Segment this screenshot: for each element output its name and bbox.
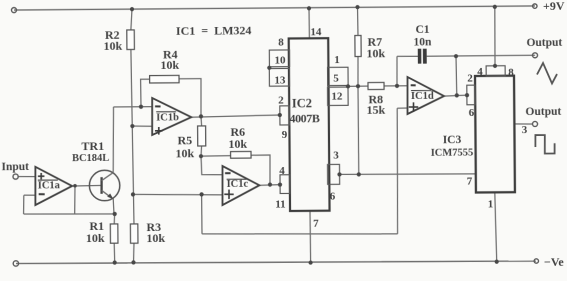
svg-text:10n: 10n xyxy=(413,36,432,48)
svg-text:10k: 10k xyxy=(366,46,385,60)
svg-text:2: 2 xyxy=(467,72,473,84)
svg-text:1: 1 xyxy=(334,54,340,66)
svg-text:5: 5 xyxy=(333,72,339,84)
svg-text:7: 7 xyxy=(467,175,473,187)
svg-text:14: 14 xyxy=(310,26,322,38)
svg-text:15k: 15k xyxy=(366,103,385,117)
svg-text:R5: R5 xyxy=(177,133,192,147)
svg-text:TR1: TR1 xyxy=(81,139,104,153)
svg-text:12: 12 xyxy=(331,90,343,102)
svg-text:7: 7 xyxy=(313,217,319,229)
svg-text:IC1a: IC1a xyxy=(38,180,61,191)
svg-text:10k: 10k xyxy=(175,146,194,160)
svg-text:BC184L: BC184L xyxy=(72,153,109,164)
svg-text:IC1d: IC1d xyxy=(411,91,434,102)
svg-text:IC1 = LM324: IC1 = LM324 xyxy=(176,23,252,38)
svg-text:3: 3 xyxy=(333,149,339,161)
svg-text:+9V: +9V xyxy=(543,0,565,13)
svg-text:1: 1 xyxy=(488,198,494,210)
svg-text:C1: C1 xyxy=(415,24,429,36)
svg-text:10k: 10k xyxy=(160,58,179,72)
svg-text:11: 11 xyxy=(275,198,286,210)
svg-text:10k: 10k xyxy=(228,137,247,151)
svg-text:Output: Output xyxy=(526,37,562,49)
svg-text:10k: 10k xyxy=(103,39,122,53)
svg-text:6: 6 xyxy=(469,107,475,119)
svg-text:4007B: 4007B xyxy=(289,111,320,125)
svg-text:4: 4 xyxy=(279,165,285,177)
svg-text:ICM7555: ICM7555 xyxy=(431,147,474,158)
svg-text:6: 6 xyxy=(330,190,336,202)
svg-text:13: 13 xyxy=(274,74,286,86)
svg-text:8: 8 xyxy=(278,36,284,48)
svg-text:9: 9 xyxy=(282,129,288,141)
svg-text:−Ve: −Ve xyxy=(544,255,565,269)
svg-text:2: 2 xyxy=(278,94,284,106)
svg-text:IC1c: IC1c xyxy=(227,179,249,190)
svg-text:Input: Input xyxy=(1,161,29,173)
svg-text:3: 3 xyxy=(522,124,528,136)
svg-text:8: 8 xyxy=(508,66,514,78)
svg-text:10k: 10k xyxy=(86,231,105,245)
svg-text:Output: Output xyxy=(525,106,561,118)
svg-text:10k: 10k xyxy=(146,231,165,245)
svg-text:IC3: IC3 xyxy=(443,134,462,146)
svg-text:4: 4 xyxy=(477,66,483,78)
svg-text:10: 10 xyxy=(274,54,286,66)
svg-text:IC1b: IC1b xyxy=(156,112,179,123)
svg-text:IC2: IC2 xyxy=(292,96,312,110)
